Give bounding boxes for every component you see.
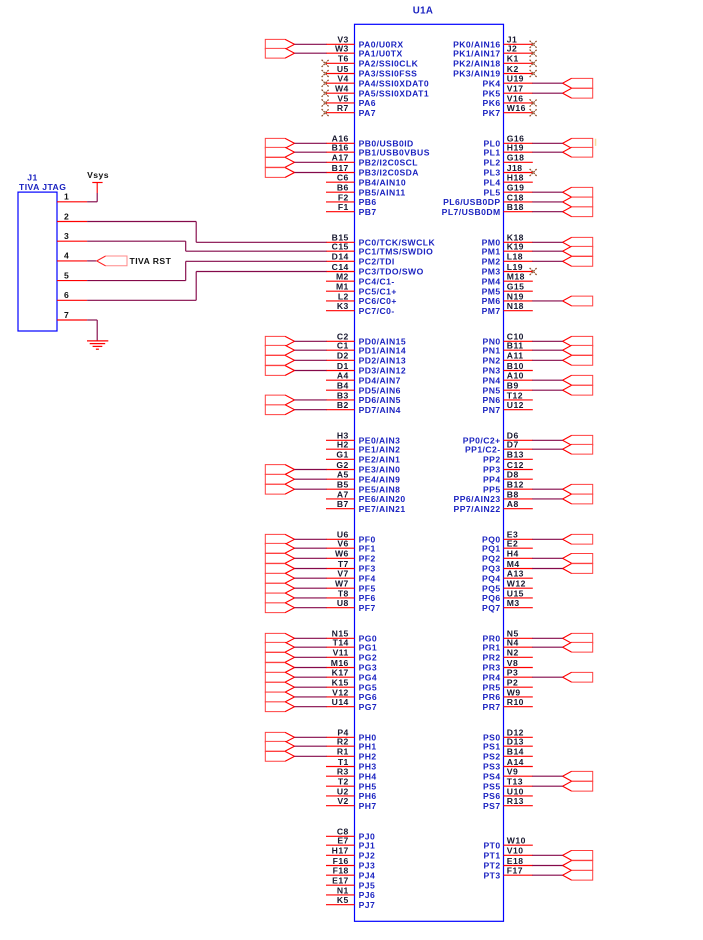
svg-text:A10: A10: [507, 371, 524, 381]
svg-text:A8: A8: [507, 499, 519, 509]
svg-text:W3: W3: [335, 44, 349, 54]
svg-text:L2: L2: [338, 291, 349, 301]
svg-text:D13: D13: [507, 737, 524, 747]
svg-text:PM7: PM7: [482, 306, 501, 316]
svg-text:1: 1: [64, 192, 69, 202]
svg-text:PK7: PK7: [483, 108, 501, 118]
svg-text:PJ6: PJ6: [359, 890, 376, 900]
svg-text:Vsys: Vsys: [87, 170, 109, 180]
svg-text:PH5: PH5: [359, 781, 377, 791]
svg-text:A7: A7: [337, 489, 349, 499]
svg-text:T14: T14: [333, 638, 349, 648]
svg-text:PQ2: PQ2: [482, 553, 501, 563]
svg-text:W10: W10: [507, 836, 526, 846]
svg-text:D14: D14: [332, 252, 349, 262]
svg-text:3: 3: [64, 231, 69, 241]
svg-text:F17: F17: [507, 866, 523, 876]
svg-text:PR6: PR6: [483, 692, 501, 702]
svg-text:PH2: PH2: [359, 751, 377, 761]
svg-text:PE5/AIN8: PE5/AIN8: [359, 484, 401, 494]
svg-text:M16: M16: [331, 658, 349, 668]
svg-text:V5: V5: [337, 93, 348, 103]
svg-text:PE4/AIN9: PE4/AIN9: [359, 474, 401, 484]
svg-text:K17: K17: [332, 668, 349, 678]
svg-text:PL5: PL5: [483, 187, 500, 197]
svg-text:PR4: PR4: [483, 672, 501, 682]
svg-text:PJ5: PJ5: [359, 880, 376, 890]
svg-text:PE2/AIN1: PE2/AIN1: [359, 454, 401, 464]
svg-text:PG4: PG4: [359, 672, 378, 682]
svg-text:PM6: PM6: [482, 296, 501, 306]
svg-text:N4: N4: [507, 638, 519, 648]
svg-text:PN1: PN1: [483, 345, 501, 355]
svg-text:M1: M1: [336, 282, 349, 292]
svg-text:PD2/AIN13: PD2/AIN13: [359, 355, 407, 365]
svg-text:PG3: PG3: [359, 663, 378, 673]
svg-text:U10: U10: [507, 786, 524, 796]
svg-text:PT3: PT3: [483, 870, 500, 880]
svg-text:T8: T8: [338, 588, 349, 598]
svg-text:E7: E7: [337, 836, 348, 846]
svg-text:V10: V10: [507, 846, 524, 856]
svg-text:PN5: PN5: [483, 385, 501, 395]
svg-text:PC7/C0-: PC7/C0-: [359, 306, 395, 316]
svg-text:PK6: PK6: [483, 98, 501, 108]
svg-text:PJ2: PJ2: [359, 850, 376, 860]
svg-text:PJ3: PJ3: [359, 861, 376, 871]
svg-text:PD1/AIN14: PD1/AIN14: [359, 345, 407, 355]
svg-text:T6: T6: [338, 54, 349, 64]
svg-text:PL6/USB0DP: PL6/USB0DP: [443, 197, 501, 207]
svg-text:G2: G2: [336, 460, 348, 470]
svg-text:PK4: PK4: [483, 78, 501, 88]
svg-text:PH3: PH3: [359, 762, 377, 772]
svg-text:H4: H4: [507, 549, 519, 559]
svg-text:PP5: PP5: [483, 484, 501, 494]
svg-text:PQ7: PQ7: [482, 603, 501, 613]
svg-text:V12: V12: [332, 687, 349, 697]
svg-text:V17: V17: [507, 84, 524, 94]
svg-text:PC3/TDO/SWO: PC3/TDO/SWO: [359, 267, 424, 277]
svg-text:PG7: PG7: [359, 702, 378, 712]
svg-text:R1: R1: [337, 747, 349, 757]
svg-text:PQ3: PQ3: [482, 564, 501, 574]
svg-text:PM4: PM4: [482, 276, 501, 286]
svg-text:PF4: PF4: [359, 573, 376, 583]
svg-text:PD3/AIN12: PD3/AIN12: [359, 366, 407, 376]
svg-text:PP6/AIN23: PP6/AIN23: [454, 494, 501, 504]
svg-text:PH7: PH7: [359, 801, 377, 811]
svg-text:5: 5: [64, 270, 69, 280]
svg-text:PA2/SSI0CLK: PA2/SSI0CLK: [359, 58, 419, 68]
svg-text:A14: A14: [507, 757, 524, 767]
svg-text:PM2: PM2: [482, 256, 501, 266]
svg-text:PT2: PT2: [483, 861, 500, 871]
svg-text:R2: R2: [337, 737, 349, 747]
svg-text:PD6/AIN5: PD6/AIN5: [359, 395, 401, 405]
svg-text:U14: U14: [332, 697, 349, 707]
svg-text:B13: B13: [507, 450, 524, 460]
svg-text:PL4: PL4: [483, 177, 500, 187]
svg-text:J2: J2: [507, 44, 517, 54]
svg-text:TIVA JTAG: TIVA JTAG: [19, 182, 66, 192]
svg-text:B10: B10: [507, 361, 524, 371]
svg-text:M2: M2: [336, 272, 349, 282]
svg-text:PS7: PS7: [483, 801, 501, 811]
svg-text:R13: R13: [507, 796, 524, 806]
svg-text:PQ1: PQ1: [482, 543, 501, 553]
svg-text:N2: N2: [507, 648, 519, 658]
svg-text:V6: V6: [337, 539, 348, 549]
svg-text:PN2: PN2: [483, 355, 501, 365]
svg-text:U19: U19: [507, 74, 524, 84]
svg-text:PP7/AIN22: PP7/AIN22: [454, 504, 501, 514]
svg-text:PF6: PF6: [359, 593, 376, 603]
svg-text:PS5: PS5: [483, 781, 501, 791]
svg-text:U1A: U1A: [413, 6, 434, 17]
svg-text:PE1/AIN2: PE1/AIN2: [359, 444, 401, 454]
svg-text:PA6: PA6: [359, 98, 376, 108]
svg-text:PJ4: PJ4: [359, 870, 376, 880]
svg-text:U2: U2: [337, 786, 349, 796]
svg-text:PS3: PS3: [483, 762, 501, 772]
svg-text:A13: A13: [507, 569, 524, 579]
svg-text:PS2: PS2: [483, 751, 501, 761]
svg-text:PQ6: PQ6: [482, 593, 501, 603]
svg-text:U15: U15: [507, 588, 524, 598]
svg-text:PR2: PR2: [483, 652, 501, 662]
svg-text:E18: E18: [507, 856, 524, 866]
svg-text:H18: H18: [507, 173, 524, 183]
svg-text:V4: V4: [337, 74, 348, 84]
svg-text:B5: B5: [337, 480, 349, 490]
svg-text:W7: W7: [335, 579, 349, 589]
svg-text:C15: C15: [332, 242, 349, 252]
svg-text:K5: K5: [337, 895, 349, 905]
svg-text:R7: R7: [337, 103, 349, 113]
svg-text:N18: N18: [507, 301, 524, 311]
svg-text:A4: A4: [337, 371, 349, 381]
svg-text:W9: W9: [507, 687, 521, 697]
svg-text:PR5: PR5: [483, 682, 501, 692]
svg-text:V2: V2: [337, 796, 348, 806]
svg-text:N1: N1: [337, 885, 349, 895]
svg-text:V8: V8: [507, 658, 518, 668]
svg-text:C18: C18: [507, 192, 524, 202]
svg-text:B17: B17: [332, 163, 349, 173]
svg-text:PN3: PN3: [483, 366, 501, 376]
svg-text:PD5/AIN6: PD5/AIN6: [359, 385, 401, 395]
svg-text:M18: M18: [507, 272, 525, 282]
svg-text:T12: T12: [507, 390, 523, 400]
svg-text:TIVA RST: TIVA RST: [130, 256, 172, 266]
svg-text:PS4: PS4: [483, 771, 501, 781]
svg-text:B7: B7: [337, 499, 349, 509]
svg-text:PD4/AIN7: PD4/AIN7: [359, 375, 401, 385]
svg-text:P3: P3: [507, 668, 518, 678]
svg-text:PA1/U0TX: PA1/U0TX: [359, 48, 403, 58]
svg-text:PT0: PT0: [483, 840, 500, 850]
svg-text:U12: U12: [507, 400, 524, 410]
svg-text:G18: G18: [507, 153, 525, 163]
svg-text:PM3: PM3: [482, 267, 501, 277]
svg-text:K3: K3: [337, 301, 349, 311]
svg-text:PR1: PR1: [483, 642, 501, 652]
svg-text:B9: B9: [507, 381, 519, 391]
svg-text:C6: C6: [337, 173, 349, 183]
svg-text:PN7: PN7: [483, 405, 501, 415]
svg-text:PP2: PP2: [483, 454, 501, 464]
svg-text:PC6/C0+: PC6/C0+: [359, 296, 397, 306]
svg-text:PB7: PB7: [359, 207, 377, 217]
svg-text:PS1: PS1: [483, 741, 501, 751]
svg-text:F16: F16: [333, 856, 349, 866]
svg-text:PP1/C2-: PP1/C2-: [465, 444, 501, 454]
svg-text:F1: F1: [338, 202, 349, 212]
svg-text:PH6: PH6: [359, 791, 377, 801]
svg-text:G1: G1: [336, 450, 348, 460]
svg-text:PM1: PM1: [482, 246, 501, 256]
svg-text:PF5: PF5: [359, 583, 376, 593]
svg-text:B12: B12: [507, 480, 524, 490]
svg-text:D7: D7: [507, 440, 519, 450]
svg-text:B4: B4: [337, 381, 349, 391]
svg-text:PR7: PR7: [483, 702, 501, 712]
svg-text:C12: C12: [507, 460, 524, 470]
svg-text:PA5/SSI0XDAT1: PA5/SSI0XDAT1: [359, 88, 429, 98]
svg-text:K19: K19: [507, 242, 524, 252]
svg-text:B8: B8: [507, 489, 519, 499]
svg-text:PK1/AIN17: PK1/AIN17: [453, 48, 501, 58]
svg-text:PT1: PT1: [483, 850, 500, 860]
svg-text:PN4: PN4: [483, 375, 501, 385]
svg-text:B3: B3: [337, 390, 349, 400]
svg-text:L18: L18: [507, 252, 523, 262]
svg-text:L19: L19: [507, 262, 523, 272]
svg-text:PG5: PG5: [359, 682, 378, 692]
svg-text:F18: F18: [333, 866, 349, 876]
svg-text:PB1/USB0VBUS: PB1/USB0VBUS: [359, 147, 430, 157]
svg-text:4: 4: [64, 251, 69, 261]
svg-text:A5: A5: [337, 470, 349, 480]
svg-text:PP4: PP4: [483, 474, 501, 484]
svg-text:PJ1: PJ1: [359, 840, 376, 850]
svg-text:B11: B11: [507, 341, 524, 351]
svg-text:E2: E2: [507, 539, 518, 549]
svg-text:A17: A17: [332, 153, 349, 163]
svg-text:D1: D1: [337, 361, 349, 371]
svg-text:PF1: PF1: [359, 543, 376, 553]
svg-text:PH1: PH1: [359, 741, 377, 751]
svg-text:K1: K1: [507, 54, 519, 64]
svg-text:PA7: PA7: [359, 108, 376, 118]
svg-text:M3: M3: [507, 598, 520, 608]
svg-text:P2: P2: [507, 678, 518, 688]
svg-text:R10: R10: [507, 697, 524, 707]
svg-text:W6: W6: [335, 549, 349, 559]
svg-text:PR3: PR3: [483, 663, 501, 673]
svg-text:PK2/AIN18: PK2/AIN18: [453, 58, 501, 68]
svg-text:PC2/TDI: PC2/TDI: [359, 256, 395, 266]
svg-text:PG1: PG1: [359, 642, 378, 652]
svg-text:B6: B6: [337, 183, 349, 193]
svg-text:PD7/AIN4: PD7/AIN4: [359, 405, 401, 415]
svg-text:PF2: PF2: [359, 553, 376, 563]
svg-text:PS6: PS6: [483, 791, 501, 801]
svg-text:2: 2: [64, 211, 69, 221]
svg-text:PB4/AIN10: PB4/AIN10: [359, 177, 407, 187]
svg-text:7: 7: [64, 310, 69, 320]
svg-text:K2: K2: [507, 64, 519, 74]
svg-text:W16: W16: [507, 103, 526, 113]
svg-text:J18: J18: [507, 163, 523, 173]
svg-text:V9: V9: [507, 767, 518, 777]
svg-text:R3: R3: [337, 767, 349, 777]
svg-text:K15: K15: [332, 678, 349, 688]
svg-text:PL3: PL3: [483, 168, 500, 178]
svg-text:V7: V7: [337, 569, 348, 579]
svg-text:PB5/AIN11: PB5/AIN11: [359, 187, 406, 197]
svg-text:PL2: PL2: [483, 157, 500, 167]
svg-text:H17: H17: [332, 846, 349, 856]
svg-text:PL1: PL1: [483, 147, 500, 157]
svg-text:PF7: PF7: [359, 603, 376, 613]
svg-text:C14: C14: [332, 262, 349, 272]
svg-text:PC5/C1+: PC5/C1+: [359, 286, 397, 296]
svg-text:PQ5: PQ5: [482, 583, 501, 593]
svg-text:H19: H19: [507, 143, 524, 153]
svg-text:G15: G15: [507, 282, 525, 292]
svg-text:PQ4: PQ4: [482, 573, 501, 583]
svg-text:PE6/AIN20: PE6/AIN20: [359, 494, 406, 504]
svg-text:B14: B14: [507, 747, 524, 757]
svg-text:PG6: PG6: [359, 692, 378, 702]
svg-text:PC4/C1-: PC4/C1-: [359, 276, 395, 286]
svg-text:PK3/AIN19: PK3/AIN19: [453, 69, 501, 79]
svg-text:D2: D2: [337, 351, 349, 361]
svg-text:V11: V11: [333, 648, 349, 658]
svg-text:PH4: PH4: [359, 771, 377, 781]
svg-text:PC1/TMS/SWDIO: PC1/TMS/SWDIO: [359, 246, 434, 256]
svg-text:PG2: PG2: [359, 652, 378, 662]
svg-text:PB6: PB6: [359, 197, 377, 207]
svg-text:H2: H2: [337, 440, 349, 450]
svg-text:U5: U5: [337, 64, 349, 74]
svg-text:PA3/SSI0FSS: PA3/SSI0FSS: [359, 69, 418, 79]
svg-text:T13: T13: [507, 777, 523, 787]
svg-text:W12: W12: [507, 579, 526, 589]
svg-text:B16: B16: [332, 143, 349, 153]
svg-text:A11: A11: [507, 351, 524, 361]
svg-text:PL7/USB0DM: PL7/USB0DM: [442, 207, 501, 217]
svg-text:PN6: PN6: [483, 395, 501, 405]
svg-text:PM5: PM5: [482, 286, 501, 296]
svg-text:D8: D8: [507, 470, 519, 480]
svg-text:PP3: PP3: [483, 465, 501, 475]
svg-text:PE3/AIN0: PE3/AIN0: [359, 465, 401, 475]
svg-text:N19: N19: [507, 291, 524, 301]
svg-text:PA4/SSI0XDAT0: PA4/SSI0XDAT0: [359, 78, 429, 88]
svg-text:PB3/I2C0SDA: PB3/I2C0SDA: [359, 168, 419, 178]
svg-text:T7: T7: [338, 559, 349, 569]
svg-text:W4: W4: [335, 84, 349, 94]
svg-text:G19: G19: [507, 183, 525, 193]
svg-text:C1: C1: [337, 341, 349, 351]
svg-text:PE7/AIN21: PE7/AIN21: [359, 504, 406, 514]
svg-text:E17: E17: [332, 876, 349, 886]
svg-text:PF3: PF3: [359, 564, 376, 574]
svg-text:PB2/I2C0SCL: PB2/I2C0SCL: [359, 157, 418, 167]
svg-text:PK5: PK5: [483, 88, 501, 98]
svg-text:T2: T2: [338, 777, 349, 787]
svg-text:PJ7: PJ7: [359, 900, 376, 910]
svg-text:F2: F2: [338, 192, 349, 202]
svg-text:6: 6: [64, 290, 69, 300]
svg-text:B2: B2: [337, 400, 349, 410]
svg-text:T1: T1: [338, 757, 349, 767]
svg-text:B18: B18: [507, 202, 524, 212]
svg-text:M4: M4: [507, 559, 520, 569]
svg-text:U8: U8: [337, 598, 349, 608]
svg-text:V16: V16: [507, 93, 524, 103]
